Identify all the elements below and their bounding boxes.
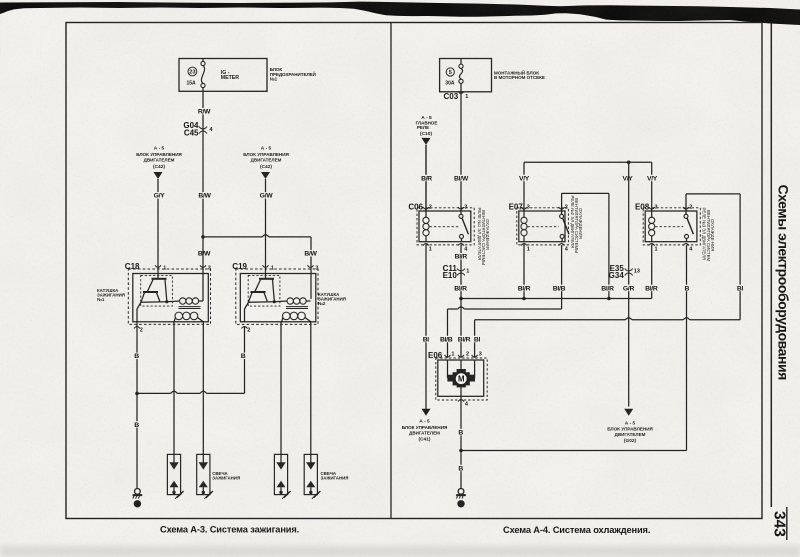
sidebar title (rotated) [775,185,791,381]
spark plugs 3-4 label [321,471,349,480]
wire Bl from E08 pin2 to motor pin3 [472,194,745,358]
spark plugs 1-2 label [212,471,240,480]
wire G/Y [152,179,167,279]
ignition coil C19 (transistor + transformer) [232,262,318,334]
ignition coil C18 (transistor + transformer) [125,262,211,334]
relay E08 (РЕЛЕ №3 эл. двигателя вентилятора) [635,203,715,262]
wire Bl/B from E07 pin4 to motor pin1 [437,245,569,358]
relay E07 (РЕЛЕ №2 эл. двигателя вентилятора) [509,196,584,254]
connector A-5 C42 right (to engine control unit) [243,145,289,179]
connector A-5 C42 left (to engine control unit) [136,145,182,179]
coil C19 label [318,292,346,306]
fuse block БЛОК ПРЕДОХРАНИТЕЛЕЙ No1 [179,59,316,92]
wire Bl from C06 pin1 to C41 [421,245,431,409]
wire B from C18 pin 2 [133,322,139,394]
sidebar rule [770,23,772,508]
wire B to ground (right) [458,451,464,489]
connector G04/C45 pin 4 [183,121,213,137]
wire V/Y bus [517,162,660,211]
node V/Y junction [627,161,631,165]
wire B/W to C18 pin 3 [202,237,204,301]
node B/W junction [201,235,205,239]
caption schema A-3 [160,524,299,534]
wire B to C19 pin 2 [137,326,246,393]
fuse 23 15A [201,59,205,92]
fan motor E06 [428,351,487,407]
spark plug 4 (wire + plug + ground) [304,322,320,499]
spark plug 1 (wire + plug + ground) [167,322,183,499]
node Bl/R junction right [607,297,611,301]
spark plug 2 (wire + plug + ground) [197,322,213,499]
page number 343 (rotated) [771,507,788,540]
coil C18 label [97,288,125,302]
wire Bl/R bus [461,298,652,300]
wire R/W [197,91,212,133]
wire E07 pin2 to bus (Bl/R) [562,193,617,298]
diagram frame [66,23,762,519]
scan artifact: bottom gray smear [0,546,800,557]
relay C06 (РЕЛЕ №1 эл. двигателя вентилятора) [408,203,490,265]
connector A-5 G02 (to engine control unit) [607,409,653,444]
spark plug 3 (wire + plug + ground) [274,322,290,499]
node Bl/R junction left [459,297,463,301]
wire G/R with connector E35/G34 pin 13 [609,162,640,406]
wire B/R [419,145,434,211]
ground (left diagram) [133,489,143,508]
wire B to ground [133,393,139,488]
wire Bl/R from C06 pin4 [451,245,470,299]
connector C11/E10 pin 1 [443,264,470,292]
wire B from motor pin4 [458,396,464,450]
wire B/W branch to C19 [197,235,318,299]
connector A-5 C41 (to engine control unit) [402,409,448,443]
wire B from E08 pin4 [461,245,690,451]
ground (right diagram) [456,489,466,508]
node B junction [135,392,139,396]
wire from bus to motor pin2 [455,299,474,358]
scan artifact: top black band [0,2,800,25]
fuse block C03 (МОНТАЖНЫЙ БЛОК) [440,59,545,102]
wire G/W [259,179,274,279]
wire B/W main [197,133,212,237]
fuse 5 30A [459,59,463,92]
caption schema A-4 [503,525,650,535]
connector A-5 C10 (главное реле) [416,115,438,145]
wire Bl/W from fuse to C06 [452,92,471,211]
node B junction (motor) [459,449,463,453]
node Bl/R junction mid [522,297,526,301]
wire Bl/R from E08 pin1 [642,245,661,299]
wire Bl/R from E07 pin1 [515,245,534,299]
